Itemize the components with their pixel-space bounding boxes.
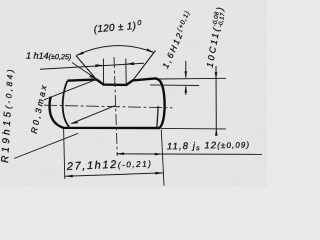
- arc left arrowhead: [75, 52, 84, 56]
- groove extension line left: [102, 59, 104, 84]
- groove extension line right: [125, 59, 127, 85]
- bottom surface extension line right: [161, 127, 226, 130]
- text 10C11: [205, 7, 228, 69]
- top surface extension line: [159, 77, 227, 80]
- right extension line shared: [161, 130, 164, 186]
- arc right arrowhead: [146, 48, 154, 53]
- left face edge: [63, 81, 70, 127]
- 1,6H12 dimension line: [185, 61, 187, 78]
- 27,1 dimension line: [65, 173, 163, 176]
- horizontal centerline: [44, 105, 172, 108]
- 11,8 dimension line: [117, 153, 263, 156]
- vertical centerline: [114, 57, 117, 156]
- R19 radius line: [72, 106, 116, 124]
- groove dim left arrow: [95, 64, 103, 67]
- chamfer leader arrowhead: [89, 75, 96, 79]
- part body outline: [50, 78, 165, 128]
- angle extension right: [133, 51, 156, 81]
- angle extension left: [76, 56, 97, 80]
- R0,3 leader: [44, 80, 96, 100]
- groove width dim line + text shelf: [40, 63, 144, 69]
- 10C11 dimension line: [215, 66, 217, 129]
- R19 arrowhead: [70, 121, 78, 124]
- angular dimension arc 120 deg: [77, 46, 153, 56]
- chamfer leader 1h14: [72, 63, 96, 79]
- 27,1 left extension line: [64, 129, 65, 179]
- right face edge: [157, 106, 158, 128]
- groove dim right arrow: [126, 62, 134, 65]
- groove bottom extension line: [150, 84, 199, 87]
- R19 text leader: [14, 133, 78, 158]
- svg-text:1 h14(±0,25): 1 h14(±0,25): [26, 51, 71, 62]
